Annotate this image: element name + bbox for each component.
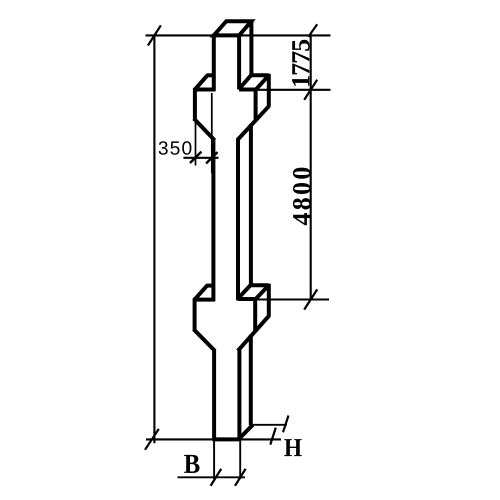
column upper left edge [212,34,216,91]
right corbel right depth edge [255,75,269,90]
right corbel bevel [237,106,269,140]
tick right 4800 [304,289,317,309]
mid shaft front-right edge [236,139,240,301]
dimension line right vertical [310,35,312,299]
dimension line B [178,476,246,478]
right corbel front-top edge [239,88,256,92]
left corbel front-top edge [194,88,216,92]
label 350 [159,141,192,155]
bottom-right corbel back-right edge [267,284,271,317]
tick H bottom [270,428,276,445]
bottom-left corbel bevel [194,329,215,351]
mid shaft left edge [211,138,215,301]
bottom-right corbel right depth edge [255,285,269,300]
column upper back-right edge [249,21,253,77]
left corbel bevel [194,119,215,141]
bottom shaft back-right edge [249,335,253,425]
bottom-left corbel back-top edge [206,284,213,288]
extension line 4800 bottom [252,298,329,300]
tick bottom-left [145,429,159,450]
column top face [214,21,252,35]
right corbel front-right edge [254,88,258,121]
left corbel front-left edge [193,88,197,121]
extension line H top [253,424,287,426]
extension line B right [239,440,241,479]
bottom-right corbel left depth edge [238,285,251,299]
tick top-right [308,24,317,37]
column upper front-right edge [237,35,241,89]
extension line 350 right [211,93,213,173]
dimension line top horizontal [146,34,331,36]
bottom shaft front-right edge [237,349,241,441]
tick B right [235,469,246,486]
tick 350 left [190,152,201,163]
dimension line left vertical [153,35,155,443]
label H [284,439,301,456]
extension line 1775 bottom [255,89,331,91]
bottom-left corbel front-left edge [193,298,197,331]
bottom-left corbel front-top edge [193,298,215,302]
dimension line 350 [183,157,218,159]
label B [184,455,199,473]
tick 350 right [206,152,217,163]
bottom-left corbel depth edge [195,286,208,300]
bottom-right corbel back-top edge [251,283,269,287]
mid shaft back-right edge [249,124,253,287]
bottom-right corbel front-right edge [253,298,257,332]
column bottom depth edge [239,425,253,439]
tick B left [211,469,222,486]
label 1775 [292,40,309,86]
tick top-left [148,25,161,45]
bottom-right corbel front-top edge [238,297,255,301]
left corbel back-top edge [206,73,213,77]
left corbel depth edge [195,75,208,89]
bottom shaft left edge [212,349,216,441]
column bottom edge [213,437,241,441]
bottom-right corbel bevel [238,316,269,351]
extension line B left [213,440,215,479]
right corbel back-top edge [251,73,268,77]
dimension line base horizontal [146,438,281,440]
right corbel left depth edge [239,75,251,89]
extension line 350 left [195,121,197,166]
tick right 1775 [304,80,317,100]
label 4800 [293,168,311,226]
right corbel back-right edge [267,74,271,107]
tick H top [283,416,289,433]
